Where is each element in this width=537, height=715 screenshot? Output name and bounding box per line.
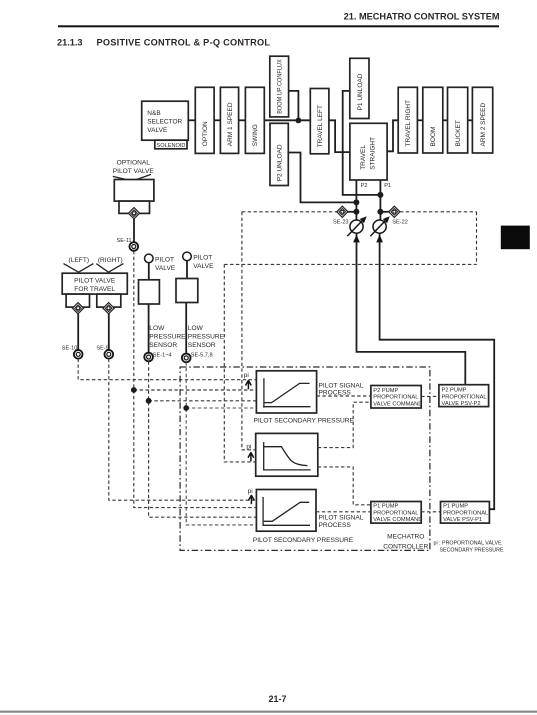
dashed drop to middle graph input 1 xyxy=(242,212,256,450)
dashed link P2 command to PSV-P2 xyxy=(421,395,439,397)
box P1 PUMP PROPORTIONAL VALVE COMMAND xyxy=(371,502,421,524)
svg-text:PROPORTIONAL: PROPORTIONAL xyxy=(443,510,488,516)
svg-text:TRAVEL RIGHT: TRAVEL RIGHT xyxy=(405,100,412,147)
junction node SE-1~4 branch xyxy=(146,398,152,404)
dashed wire SE-9 down to bottom pi line xyxy=(109,359,256,501)
controller boundary (dash-dot) xyxy=(180,367,430,550)
svg-text:pi : PROPORTIONAL VALVE: pi : PROPORTIONAL VALVE xyxy=(434,540,503,546)
wire body 2 to SE-5,7,8 xyxy=(185,303,187,354)
arrowhead up PSV-P1 xyxy=(376,235,383,243)
box P2 PUMP PROPORTIONAL VALVE COMMAND xyxy=(371,386,421,409)
valve block TRAVEL RIGHT xyxy=(398,87,417,153)
svg-text:SELECTOR: SELECTOR xyxy=(147,119,182,126)
svg-text:21.1.3: 21.1.3 xyxy=(57,38,83,48)
valve block ARM 1 SPEED xyxy=(220,87,238,153)
svg-text:(LEFT): (LEFT) xyxy=(69,257,90,264)
wire TRAVEL LEFT to TRAVEL STRAIGHT xyxy=(329,120,350,152)
svg-text:VALVE: VALVE xyxy=(193,263,214,270)
bottom graph x-axis xyxy=(263,524,310,526)
sensor SE-10 xyxy=(74,350,83,359)
svg-text:PROPORTIONAL: PROPORTIONAL xyxy=(373,395,418,401)
wire SE-23 diamond link xyxy=(342,211,356,213)
port diamond optional pilot valve xyxy=(128,208,139,219)
junction node P2 xyxy=(353,199,359,205)
wire BUCKET to ARM 2 SPEED xyxy=(468,119,473,121)
svg-text:VALVE COMMAND: VALVE COMMAND xyxy=(373,517,422,523)
valve block BOOM UP CONFLUX xyxy=(270,56,289,117)
svg-text:BOOM UP CONFLUX: BOOM UP CONFLUX xyxy=(277,59,284,114)
svg-text:PROPORTIONAL: PROPORTIONAL xyxy=(442,394,487,400)
wire diamond to SE-9 xyxy=(108,314,110,351)
top graph curve xyxy=(264,383,310,402)
dashed output middle graph up to P2 command xyxy=(318,402,371,447)
svg-text:SOLENOID: SOLENOID xyxy=(157,143,186,149)
svg-text:SE-11: SE-11 xyxy=(117,238,132,244)
middle graph y-axis xyxy=(263,442,265,470)
svg-text:ARM 2 SPEED: ARM 2 SPEED xyxy=(480,102,487,146)
svg-text:P2 PUMP: P2 PUMP xyxy=(373,388,398,394)
wire P1 UNLOAD down to P1 node xyxy=(343,91,381,195)
dashed pump sensor line through SE-23 SE-22 xyxy=(242,211,337,213)
svg-text:BUCKET: BUCKET xyxy=(455,120,462,146)
svg-text:SE-1~4: SE-1~4 xyxy=(153,352,172,358)
solenoid block SOLENOID xyxy=(155,140,187,149)
wire SWING to TRAVEL LEFT (main bus) xyxy=(264,119,310,121)
junction node P1 sense xyxy=(377,209,383,215)
svg-text:PILOT SECONDARY PRESSURE: PILOT SECONDARY PRESSURE xyxy=(253,537,354,544)
pilot valve 1 circle xyxy=(145,254,154,263)
svg-text:P1 UNLOAD: P1 UNLOAD xyxy=(357,73,364,110)
svg-text:LOW: LOW xyxy=(149,325,165,332)
pilot valve 1 body xyxy=(139,280,160,304)
svg-text:VALVE PSV-P1: VALVE PSV-P1 xyxy=(443,517,482,523)
svg-text:CONTROLLER: CONTROLLER xyxy=(383,543,428,550)
sensor SE-1~4 xyxy=(144,353,153,362)
svg-text:(RIGHT): (RIGHT) xyxy=(98,257,123,264)
lever mark right xyxy=(96,264,123,273)
valve block N&B SELECTOR VALVE xyxy=(142,101,189,140)
junction node SE-5,7,8 branch xyxy=(183,405,189,411)
dashed drop to middle graph input 2 xyxy=(224,264,255,462)
svg-text:TRAVEL LEFT: TRAVEL LEFT xyxy=(317,105,324,147)
sensor diamond SE-22 xyxy=(389,206,400,217)
middle graph curve xyxy=(264,447,308,466)
pilot valve 2 body xyxy=(176,279,198,303)
box P1 PUMP PROPORTIONAL VALVE PSV-P1 xyxy=(441,502,490,524)
svg-text:OPTION: OPTION xyxy=(202,121,209,146)
svg-text:SWING: SWING xyxy=(252,124,259,146)
svg-text:P2: P2 xyxy=(361,183,368,189)
svg-text:VALVE: VALVE xyxy=(155,265,176,272)
svg-text:PILOT VALVE: PILOT VALVE xyxy=(113,168,155,175)
sensor SE-11 xyxy=(129,242,138,251)
wire BOOM to BUCKET xyxy=(443,119,448,121)
svg-text:pi: pi xyxy=(244,372,249,379)
valve block SWING xyxy=(245,87,264,153)
svg-text:BOOM: BOOM xyxy=(430,127,437,147)
dashed wire SE-11 trunk xyxy=(134,251,256,508)
lever mark left xyxy=(64,264,94,273)
svg-text:VALVE PSV-P2: VALVE PSV-P2 xyxy=(442,401,481,407)
dashed output bottom graph to P1 command xyxy=(316,511,371,513)
optional pilot valve body xyxy=(114,180,154,202)
middle graph x-axis xyxy=(263,469,311,471)
footer rule xyxy=(0,711,537,713)
bottom graph box xyxy=(256,490,316,532)
wire PSV-P1 to output box (line A) xyxy=(380,233,495,509)
top graph y-axis xyxy=(263,378,265,407)
svg-text:STRAIGHT: STRAIGHT xyxy=(369,137,376,170)
svg-text:FOR TRAVEL: FOR TRAVEL xyxy=(74,286,115,293)
wire PSV-P2 to output box (line B) xyxy=(357,233,466,385)
svg-text:OPTIONAL: OPTIONAL xyxy=(117,160,151,167)
bottom graph curve xyxy=(264,502,310,521)
valve block BOOM xyxy=(423,87,443,153)
port diamond right travel xyxy=(103,303,114,314)
wire P1 port of TRAVEL STRAIGHT down xyxy=(379,180,381,221)
svg-text:LOW: LOW xyxy=(188,325,204,332)
svg-text:PILOT SIGNAL: PILOT SIGNAL xyxy=(319,515,364,522)
svg-text:SE-23: SE-23 xyxy=(333,219,349,225)
dashed branch SE-1~4 to top graph xyxy=(149,400,257,402)
wire ARM 1 SPEED to SWING xyxy=(239,119,246,121)
svg-text:PROPORTIONAL: PROPORTIONAL xyxy=(373,510,418,516)
dashed output top graph to P2 command xyxy=(317,395,371,397)
valve block TRAVEL LEFT xyxy=(310,89,329,154)
sensor diamond SE-23 xyxy=(337,206,348,217)
dashed wire SE-1~4 trunk xyxy=(149,361,257,517)
left port block xyxy=(66,294,89,307)
junction node on bus xyxy=(296,118,302,124)
svg-text:PILOT: PILOT xyxy=(155,257,174,264)
dashed right edge of pump sensor loop xyxy=(476,212,478,265)
wire OPTION to ARM 1 SPEED xyxy=(214,119,220,121)
svg-text:MECHATRO: MECHATRO xyxy=(387,534,424,541)
pi arrow bottom xyxy=(249,495,255,504)
box P2 PUMP PROPORTIONAL VALVE PSV-P2 xyxy=(439,385,489,407)
valve block TRAVEL STRAIGHT xyxy=(350,123,387,180)
valve block P1 UNLOAD xyxy=(350,58,369,118)
wire P2 UNLOAD down to P2 node xyxy=(288,153,356,203)
dashed bottom edge of pump sensor loop xyxy=(224,263,476,265)
svg-text:21. MECHATRO CONTROL SYSTEM: 21. MECHATRO CONTROL SYSTEM xyxy=(344,12,500,22)
svg-text:TRAVEL: TRAVEL xyxy=(360,145,367,170)
svg-text:N&B: N&B xyxy=(147,110,160,117)
wire body 1 to SE-1~4 xyxy=(148,304,150,353)
right port block xyxy=(97,294,121,307)
sensor SE-9 xyxy=(104,350,113,359)
sensor SE-5,7,8 xyxy=(182,354,191,363)
svg-text:PROCESS: PROCESS xyxy=(319,522,352,529)
svg-text:PILOT VALVE: PILOT VALVE xyxy=(74,277,116,284)
pilot valve 2 circle xyxy=(183,252,192,261)
dashed output middle graph down to P1 command xyxy=(318,467,371,505)
junction node P2 sense xyxy=(353,209,359,215)
wire SE-22 diamond link xyxy=(380,211,394,213)
svg-text:SE-22: SE-22 xyxy=(392,219,408,225)
svg-text:SE-5,7,8: SE-5,7,8 xyxy=(191,353,213,359)
svg-text:POSITIVE CONTROL & P-Q CONTROL: POSITIVE CONTROL & P-Q CONTROL xyxy=(97,38,271,48)
middle graph box xyxy=(256,433,318,476)
pilot valve for travel body xyxy=(62,273,127,294)
proportional valve symbol PSV-P2 xyxy=(347,216,366,236)
lever mark optional pilot valve xyxy=(113,174,151,181)
top graph x-axis xyxy=(263,406,310,408)
bottom graph y-axis xyxy=(262,497,264,526)
proportional valve symbol PSV-P1 xyxy=(370,216,389,236)
valve block ARM 2 SPEED xyxy=(472,87,492,153)
junction node SE-11 branch xyxy=(131,387,137,393)
wire BOOM UP CONFLUX drop to bus xyxy=(289,91,299,120)
svg-text:VALVE: VALVE xyxy=(147,127,168,134)
svg-text:P2 UNLOAD: P2 UNLOAD xyxy=(277,144,284,181)
top graph box xyxy=(256,371,316,413)
dashed branch SE-11 to top graph xyxy=(134,389,257,391)
svg-text:PILOT: PILOT xyxy=(193,255,212,262)
svg-text:SENSOR: SENSOR xyxy=(149,342,177,349)
svg-text:PILOT SECONDARY PRESSURE: PILOT SECONDARY PRESSURE xyxy=(254,417,355,424)
arrowhead up PSV-P2 xyxy=(353,235,360,243)
svg-text:SENSOR: SENSOR xyxy=(188,342,216,349)
svg-text:pi: pi xyxy=(246,443,251,450)
svg-text:P1 PUMP: P1 PUMP xyxy=(443,504,468,510)
svg-text:P1: P1 xyxy=(384,183,391,189)
dashed wire SE-5,7,8 trunk xyxy=(186,362,256,525)
dashed branch SE-5,7,8 to top graph xyxy=(186,407,256,409)
dashed link P1 command to PSV-P1 xyxy=(421,511,440,513)
wire diamond to SE-11 xyxy=(133,219,135,243)
wire diamond to SE-10 xyxy=(77,314,79,351)
dashed pump sensor line right of SE-22 xyxy=(400,211,477,213)
svg-text:PRESSURE: PRESSURE xyxy=(188,334,225,341)
valve block P2 UNLOAD xyxy=(270,123,288,185)
svg-text:21-7: 21-7 xyxy=(268,694,286,704)
optional pilot valve port block xyxy=(119,201,150,213)
wire circle to body 1 xyxy=(148,263,150,280)
valve block OPTION xyxy=(195,87,214,153)
pi arrow middle xyxy=(248,452,254,461)
svg-text:P2 PUMP: P2 PUMP xyxy=(442,388,467,394)
port diamond left travel xyxy=(72,303,83,314)
valve block BUCKET xyxy=(448,87,468,153)
pi arrow top xyxy=(246,380,252,389)
svg-text:P1 PUMP: P1 PUMP xyxy=(373,504,398,510)
junction node P1 xyxy=(377,192,383,198)
svg-text:PRESSURE: PRESSURE xyxy=(149,334,186,341)
wire TRAVEL RIGHT to BOOM xyxy=(417,119,422,121)
header rule xyxy=(58,25,499,27)
svg-text:ARM 1 SPEED: ARM 1 SPEED xyxy=(227,102,234,146)
wire N&B to OPTION xyxy=(188,119,195,121)
wire circle to body 2 xyxy=(186,261,188,279)
svg-text:PILOT SIGNAL: PILOT SIGNAL xyxy=(319,382,364,389)
svg-text:pi: pi xyxy=(248,488,253,495)
svg-text:SECONDARY PRESSURE: SECONDARY PRESSURE xyxy=(440,547,504,553)
wire TRAVEL RIGHT to TRAVEL STRAIGHT xyxy=(387,120,398,151)
dashed wire SE-10 to top pi line xyxy=(78,359,256,380)
wire P2 port of TRAVEL STRAIGHT down xyxy=(355,180,357,221)
black index tab xyxy=(501,226,530,250)
svg-text:VALVE COMMAND: VALVE COMMAND xyxy=(373,401,422,407)
